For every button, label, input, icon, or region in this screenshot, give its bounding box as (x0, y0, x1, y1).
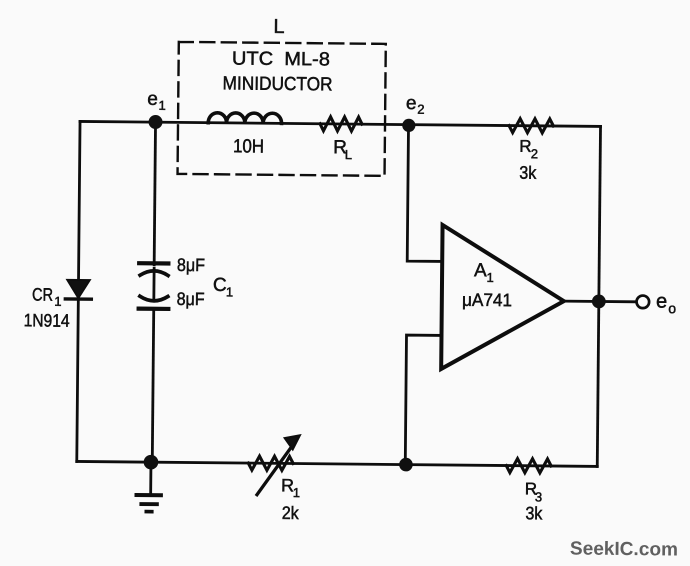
svg-text:3: 3 (535, 489, 542, 504)
svg-text:L: L (273, 16, 284, 38)
svg-text:MINIDUCTOR: MINIDUCTOR (223, 73, 333, 95)
svg-text:1: 1 (54, 294, 61, 309)
svg-text:CR: CR (32, 284, 53, 304)
svg-text:e: e (656, 290, 667, 312)
svg-text:L: L (345, 147, 352, 162)
svg-text:C: C (213, 275, 227, 296)
svg-text:SeekIC.com: SeekIC.com (570, 538, 678, 560)
svg-text:2: 2 (417, 102, 424, 117)
svg-text:3k: 3k (519, 163, 537, 183)
svg-text:1N914: 1N914 (24, 310, 70, 330)
svg-text:8μF: 8μF (177, 289, 205, 309)
svg-text:2k: 2k (282, 503, 300, 523)
svg-text:o: o (668, 300, 676, 316)
svg-text:1: 1 (226, 284, 233, 299)
svg-text:1: 1 (293, 485, 300, 500)
svg-text:UTC ML-8: UTC ML-8 (232, 49, 330, 71)
svg-text:8μF: 8μF (177, 255, 205, 275)
svg-text:1: 1 (486, 270, 493, 285)
svg-text:1: 1 (158, 98, 165, 113)
svg-text:e: e (147, 89, 158, 110)
svg-text:2: 2 (531, 146, 538, 161)
svg-text:A: A (474, 260, 487, 281)
svg-text:μA741: μA741 (462, 290, 512, 310)
svg-text:10H: 10H (233, 136, 264, 157)
svg-text:3k: 3k (525, 503, 543, 523)
svg-text:e: e (406, 93, 417, 114)
